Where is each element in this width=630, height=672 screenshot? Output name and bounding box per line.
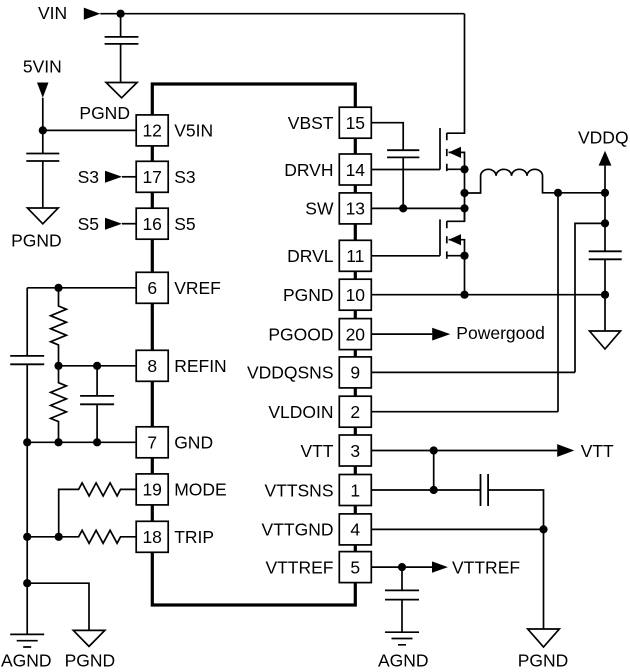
svg-text:DRVL: DRVL: [287, 246, 334, 266]
resistor R4 (TRIP): [27, 530, 136, 543]
svg-text:2: 2: [350, 402, 360, 422]
junction Q1 source: [460, 165, 468, 173]
svg-text:PGND: PGND: [518, 651, 569, 671]
IC U1 body: [152, 84, 355, 605]
S3 input arrow: [105, 171, 122, 183]
svg-text:VTT: VTT: [300, 441, 333, 461]
pin 15 box: [339, 107, 371, 138]
wire VDDQ rail upper: [604, 193, 606, 252]
svg-text:VTT: VTT: [581, 441, 614, 461]
junction Q2 source: [460, 252, 468, 260]
pin 19 box: [136, 474, 168, 505]
wire C2 top lead: [42, 130, 44, 153]
capacitor C6 (VDDQ output): [589, 251, 622, 259]
svg-text:VLDOIN: VLDOIN: [268, 402, 333, 422]
pin 8 box: [136, 350, 168, 381]
wire 5VIN vertical: [42, 98, 44, 131]
transistor Q2 drain path: [447, 208, 465, 221]
pin 1 box: [339, 475, 371, 506]
resistor R2 (REFIN-GND): [51, 366, 67, 443]
wire SW: [371, 207, 464, 209]
junction GND/left rail: [23, 438, 31, 446]
junction Q2/PGND: [460, 291, 468, 299]
wire VLDOIN: [371, 411, 558, 413]
wire VDDQ arrow stem: [604, 166, 606, 193]
resistor R3 (MODE): [59, 483, 137, 537]
svg-text:AGND: AGND: [1, 651, 52, 671]
junction REFIN/R1/R2: [54, 362, 62, 370]
pin 3 box: [339, 435, 371, 466]
ground PGND (5VIN cap): [27, 208, 58, 224]
wire GND: [27, 441, 136, 443]
junction REFIN/C4: [93, 362, 101, 370]
wire VLDOIN branch: [575, 223, 605, 372]
svg-text:PGND: PGND: [79, 103, 130, 123]
capacitor C1 (VIN bypass): [105, 37, 139, 44]
svg-text:DRVH: DRVH: [284, 160, 333, 180]
transistor Q2 body arrow: [449, 234, 461, 245]
ground PGND (VIN cap): [106, 83, 137, 98]
transistor Q1 channel segments: [446, 133, 448, 171]
transistor Q2 (low-side FET) gate bar: [439, 219, 441, 255]
junction L1/VDDQ rail: [601, 189, 609, 197]
svg-text:8: 8: [147, 356, 157, 376]
capacitor C4 (REFIN): [80, 396, 114, 404]
wire PGND (pin 10): [371, 294, 605, 296]
junction VTT/VTTSNS branch: [430, 446, 438, 454]
wire VDDQSNS: [371, 371, 575, 373]
VDDQ output arrow: [599, 151, 612, 166]
svg-text:VREF: VREF: [174, 278, 221, 298]
wire C2 bottom lead: [42, 161, 44, 208]
pin 12 box: [136, 115, 168, 146]
svg-text:PGND: PGND: [283, 285, 334, 305]
svg-text:REFIN: REFIN: [174, 356, 227, 376]
VTT output arrow: [557, 444, 574, 457]
junction VTTREF/C8: [398, 563, 406, 571]
pin 13 box: [339, 193, 371, 224]
capacitor C8 (VTTREF): [385, 590, 419, 599]
svg-text:19: 19: [142, 480, 161, 500]
junction SW node: [460, 204, 468, 212]
wire C8 bottom lead: [401, 600, 403, 633]
junction GND/R2: [54, 438, 62, 446]
junction PGND branch: [23, 579, 31, 587]
svg-text:S3: S3: [78, 167, 99, 187]
svg-text:VIN: VIN: [38, 3, 67, 23]
svg-text:V5IN: V5IN: [174, 121, 213, 141]
svg-text:VTTSNS: VTTSNS: [264, 480, 333, 500]
svg-text:14: 14: [346, 160, 366, 180]
transistor Q1 body arrow: [449, 147, 461, 158]
transistor Q1 (high-side FET) gate bar: [439, 128, 441, 170]
ground PGND (VTT): [528, 629, 560, 647]
wire S5: [122, 223, 136, 225]
ground (VDDQ output cap): [590, 331, 621, 349]
junction VTTGND: [539, 525, 547, 533]
ground PGND (bottom left): [73, 630, 105, 646]
svg-text:S5: S5: [78, 214, 99, 234]
transistor Q2 source stub: [447, 255, 465, 257]
wire VTTGND: [371, 528, 543, 530]
pin 18 box: [136, 521, 168, 552]
pin 14 box: [339, 154, 371, 185]
junction VTTSNS: [430, 486, 438, 494]
wire left rail upper: [26, 288, 28, 356]
wire Q1 source to Q2 drain: [464, 169, 466, 221]
transistor Q1 drain path from VIN: [447, 14, 465, 134]
junction VREF/R1: [54, 284, 62, 292]
junction TRIP/left rail: [23, 533, 31, 541]
junction TRIP/MODE: [55, 533, 63, 541]
VTTREF output arrow: [432, 561, 448, 572]
wire C1 top lead: [120, 14, 122, 37]
pin 4 box: [339, 514, 371, 545]
wire VBST: [371, 123, 403, 151]
wire VTT to VTTSNS: [433, 451, 435, 491]
svg-text:SW: SW: [305, 199, 334, 219]
wire DRVL: [371, 255, 440, 257]
svg-text:GND: GND: [174, 433, 213, 453]
svg-text:TRIP: TRIP: [174, 527, 214, 547]
wire C1 bottom lead: [120, 44, 122, 83]
wire REFIN: [59, 365, 137, 367]
svg-text:S5: S5: [174, 214, 195, 234]
transistor Q2 body arrow line: [449, 240, 465, 256]
5VIN input arrow: [37, 83, 49, 98]
capacitor C2 (5VIN bypass): [26, 154, 59, 162]
junction C5/SW: [399, 204, 407, 212]
svg-text:16: 16: [142, 214, 161, 234]
wire VIN top rail: [100, 13, 464, 15]
wire PGOOD: [371, 333, 432, 335]
svg-text:10: 10: [346, 285, 366, 305]
capacitor C7 (VTT): [481, 474, 489, 506]
ground AGND (left): [10, 634, 44, 647]
PGOOD output arrow: [432, 328, 450, 341]
junction GND/C4: [93, 438, 101, 446]
wire VLDOIN rail: [557, 193, 559, 412]
wire VDDQ rail lower: [604, 259, 606, 331]
transistor Q2 channel segments: [446, 221, 448, 259]
svg-text:VTTGND: VTTGND: [262, 520, 334, 540]
ground AGND (right): [385, 632, 419, 645]
svg-text:VTTREF: VTTREF: [265, 557, 333, 577]
wire VTT: [371, 450, 557, 452]
wire C5 bottom lead: [402, 157, 404, 208]
pin 7 box: [136, 427, 168, 458]
wire VREF to left rail: [27, 287, 136, 289]
resistor R1 (VREF-REFIN): [51, 288, 67, 366]
wire V5IN pin feed: [43, 129, 136, 131]
svg-text:3: 3: [350, 441, 360, 461]
pin 5 box: [339, 552, 371, 583]
wire C8 top lead: [401, 567, 403, 590]
wire C4 bottom lead: [96, 404, 98, 442]
svg-text:15: 15: [346, 113, 365, 133]
svg-text:VBST: VBST: [288, 113, 334, 133]
svg-text:13: 13: [346, 199, 365, 219]
svg-text:VTTREF: VTTREF: [452, 558, 520, 578]
pin 6 box: [136, 272, 168, 303]
svg-text:6: 6: [147, 278, 157, 298]
svg-text:11: 11: [346, 246, 364, 266]
svg-text:5VIN: 5VIN: [23, 56, 62, 76]
svg-text:MODE: MODE: [174, 480, 227, 500]
wire left rail lower: [26, 364, 28, 634]
VIN input arrow: [84, 8, 101, 20]
svg-text:12: 12: [142, 121, 161, 141]
transistor Q1 source stub: [447, 168, 465, 170]
pin 10 box: [339, 279, 371, 310]
pin 2 box: [339, 396, 371, 427]
svg-text:17: 17: [142, 167, 161, 187]
wire C4 top lead: [96, 366, 98, 396]
junction VDDQ/VLDOIN branch: [601, 219, 609, 227]
pin 17 box: [136, 161, 168, 192]
pin 11 box: [339, 240, 371, 271]
svg-text:S3: S3: [174, 167, 195, 187]
wire S3: [122, 176, 136, 178]
svg-text:20: 20: [346, 324, 366, 344]
wire Q2 source to PGND: [464, 256, 466, 295]
wire DRVH: [371, 169, 440, 171]
wire VTTSNS right of cap: [488, 490, 543, 629]
inductor L1: [465, 169, 606, 193]
svg-text:9: 9: [350, 363, 360, 383]
svg-text:4: 4: [350, 520, 360, 540]
svg-text:VDDQ: VDDQ: [578, 128, 629, 148]
pin 9 box: [339, 357, 371, 388]
junction VIN/C1: [117, 10, 125, 18]
svg-text:18: 18: [142, 527, 161, 547]
capacitor C5 (bootstrap): [387, 150, 419, 157]
junction inductor tap: [460, 189, 468, 197]
svg-text:1: 1: [350, 480, 360, 500]
wire PGND branch: [27, 583, 89, 630]
svg-text:VDDQSNS: VDDQSNS: [247, 363, 334, 383]
svg-text:PGOOD: PGOOD: [268, 324, 333, 344]
svg-text:7: 7: [147, 433, 157, 453]
wire VTTSNS left of cap: [371, 489, 480, 491]
wire VTTREF: [371, 566, 432, 568]
junction L1/VLDOIN rail: [554, 189, 562, 197]
svg-text:AGND: AGND: [378, 651, 429, 671]
capacitor C3 (VREF): [10, 356, 44, 364]
junction VDDQ rail/PGND wire: [601, 291, 609, 299]
svg-text:Powergood: Powergood: [456, 323, 545, 343]
pin 20 box: [339, 319, 371, 350]
junction 5VIN/C2: [39, 126, 47, 134]
pin 16 box: [136, 208, 168, 239]
svg-text:PGND: PGND: [11, 230, 62, 250]
svg-text:PGND: PGND: [65, 651, 116, 671]
S5 input arrow: [105, 218, 122, 230]
transistor Q1 body arrow line: [449, 152, 465, 169]
svg-text:5: 5: [350, 557, 360, 577]
